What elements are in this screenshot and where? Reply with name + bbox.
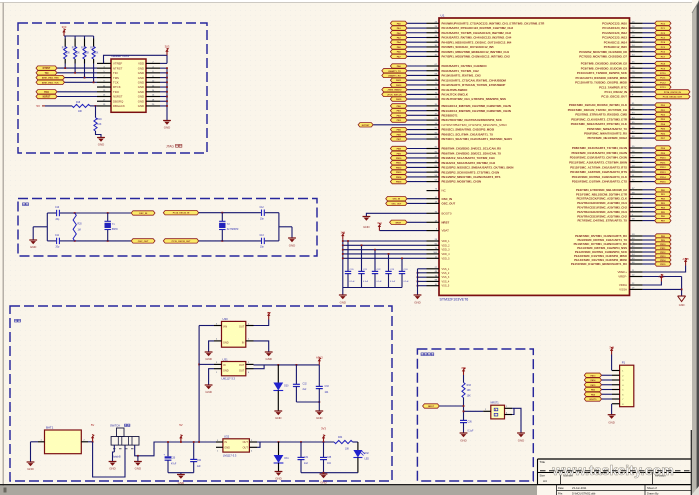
capacitor C33 104 (318, 365, 320, 387)
wire BAT1 minus to ground (31, 441, 39, 443)
svg-text:U31: U31 (223, 357, 229, 361)
svg-text:PA10/USART1_RX/TIM1_CH3: PA10/USART1_RX/TIM1_CH3 (442, 74, 482, 78)
svg-text:TDI: TDI (45, 73, 49, 75)
svg-text:R15: R15 (90, 47, 95, 49)
svg-text:PE6/TRACED3/FSMC_A22/TIM9_CH2: PE6/TRACED3/FSMC_A22/TIM9_CH2 (577, 214, 627, 218)
svg-text:PD15/FSMC_D1/TIM4_CH4/USART3_C: PD15/FSMC_D1/TIM4_CH4/USART3_CTS (572, 180, 627, 184)
svg-text:3V3: 3V3 (377, 222, 382, 225)
wire VTREF-VDD loop (104, 55, 168, 63)
svg-text:PE1/FSMC_NBL1/DCMI_D3/TIM4_ETR: PE1/FSMC_NBL1/DCMI_D3/TIM4_ETR (576, 192, 627, 196)
ground U31 left (205, 384, 213, 387)
U1 VDD pins (427, 240, 440, 242)
oscillator section dashed box (18, 199, 317, 257)
svg-text:GND: GND (135, 467, 141, 471)
svg-text:PB13: PB13 (396, 172, 402, 174)
svg-text:R33: R33 (467, 385, 472, 387)
svg-text:Header 10X2: Header 10X2 (112, 54, 130, 58)
svg-text:10K: 10K (97, 124, 102, 126)
svg-text:JTAG: JTAG (166, 145, 174, 149)
U1 right pins PC0-PC7 with ports (630, 22, 643, 24)
ground U30 left (205, 351, 213, 354)
JTAG section dashed box (18, 23, 207, 153)
svg-text:U1: U1 (441, 13, 445, 17)
svg-text:GND: GND (460, 439, 466, 443)
svg-text:GND: GND (178, 481, 184, 485)
ground BOOT0 (363, 215, 371, 218)
capacitor C32 2u2 (295, 365, 297, 384)
svg-text:3V3: 3V3 (165, 44, 170, 48)
svg-text:D32: D32 (365, 453, 370, 455)
svg-text:1M: 1M (78, 230, 81, 232)
svg-text:PE11/FSMC_D8/TIM1_CH2/SPI4_NSS: PE11/FSMC_D8/TIM1_CH2/SPI4_NSS (577, 246, 627, 250)
svg-text:C32: C32 (303, 384, 308, 386)
U1 right pins PD0-PD7 with ports (630, 104, 643, 106)
diode D31 (277, 442, 279, 455)
U1 left pins PA8-PA15 with ports (427, 65, 440, 67)
svg-text:PB1/ADC12_IN9/TIM3_CH4/TIM8_CH: PB1/ADC12_IN9/TIM3_CH4/TIM8_CH3N/TIM1_CH… (442, 109, 511, 113)
svg-text:IN: IN (242, 341, 245, 344)
svg-text:PD1/FSMC_D3/CAN_TX/OSC_OUT/TIM: PD1/FSMC_D3/CAN_TX/OSC_OUT/TIM4_CH (568, 108, 627, 112)
svg-text:32.768KHZ: 32.768KHZ (227, 229, 239, 231)
power port 5V0 above U30 (268, 315, 270, 320)
wire P1 pin1 to 3V3 (610, 355, 612, 371)
resistor R18 10K horizontal (45, 105, 72, 107)
svg-text:PC4/ADC12_IN14: PC4/ADC12_IN14 (604, 40, 628, 44)
svg-text:JTMS_SWDIO: JTMS_SWDIO (387, 90, 401, 92)
svg-text:PD13: PD13 (660, 172, 666, 174)
svg-text:Drawn By:: Drawn By: (647, 492, 659, 495)
svg-text:VDD_5: VDD_5 (442, 257, 451, 260)
port OSC_IN (131, 211, 155, 215)
svg-text:NSRST: NSRST (43, 97, 51, 99)
wire switch pole1 to ground (113, 445, 115, 452)
svg-text:GND: GND (679, 303, 685, 307)
svg-text:NRST1: NRST1 (491, 402, 500, 405)
wire 32k top rail (199, 212, 261, 214)
wire switch pole2 (135, 442, 216, 456)
port ARM_JTAG_TCK (36, 80, 65, 84)
U1 right pins PE0-PE7 with ports (630, 189, 643, 191)
svg-text:5V: 5V (36, 104, 40, 108)
svg-text:GND: GND (138, 90, 144, 94)
power port 3V3 reset (462, 370, 464, 375)
svg-text:OUT: OUT (239, 326, 245, 329)
ground reset right (517, 432, 525, 435)
svg-text:TDI: TDI (113, 71, 118, 75)
svg-text:PB15/SPI2_MOSI/TIM1_CH3N: PB15/SPI2_MOSI/TIM1_CH3N (442, 180, 482, 184)
svg-text:OSC_IN: OSC_IN (139, 213, 148, 215)
svg-text:GND: GND (275, 477, 281, 481)
capacitor C31 2u2 (300, 442, 302, 457)
wire BAT1 plus (88, 441, 93, 443)
oscillator section label (23, 203, 26, 206)
svg-text:PC2/ADC123_IN12: PC2/ADC123_IN12 (602, 31, 627, 35)
capacitor C10 20p (47, 212, 56, 214)
svg-text:GND: GND (265, 357, 271, 361)
svg-text:VDD_1: VDD_1 (442, 240, 451, 243)
svg-text:LM1117-3.3: LM1117-3.3 (222, 377, 236, 381)
svg-text:R20: R20 (78, 224, 83, 226)
svg-text:GND: GND (340, 301, 346, 305)
svg-text:OUT: OUT (243, 441, 249, 444)
U1 pin OSC_IN with port (427, 198, 440, 200)
svg-text:PE3/TRACED0/FSMC_A19/TIM3_CH1: PE3/TRACED0/FSMC_A19/TIM3_CH1 (577, 201, 627, 205)
power port 3V3 JTAG pullups (63, 31, 65, 36)
svg-text:SWITCH: SWITCH (110, 425, 120, 428)
wire TDI row (57, 72, 97, 74)
svg-text:Sheet of: Sheet of (647, 486, 657, 490)
wire U32 OUT rail 3V3 (257, 441, 334, 443)
svg-text:NSRST: NSRST (113, 95, 123, 99)
reset section label (421, 353, 424, 356)
svg-text:10K: 10K (94, 53, 99, 55)
svg-text:OUT: OUT (239, 370, 245, 373)
resistor R34 10K (334, 440, 353, 443)
wire VDD to 3V3 (160, 62, 167, 64)
port TDI (36, 71, 57, 75)
svg-text:PB10/I2C2_SCL/USART3_TX/TIM2_C: PB10/I2C2_SCL/USART3_TX/TIM2_CH3 (442, 156, 496, 160)
svg-text:PC14_OSC32_IN: PC14_OSC32_IN (605, 90, 627, 94)
svg-text:VDD_4: VDD_4 (442, 253, 451, 256)
svg-text:47uF: 47uF (171, 463, 177, 465)
svg-text:VSS_1: VSS_1 (442, 268, 450, 271)
svg-text:NJTRST/PB4/TIM3_CH1/SPI3_MISO/: NJTRST/PB4/TIM3_CH1/SPI3_MISO/SPI1_MISO (442, 123, 508, 127)
ground VSS (414, 294, 422, 297)
svg-text:VSS_2: VSS_2 (442, 272, 450, 275)
svg-text:OSC_IN: OSC_IN (393, 199, 401, 201)
window left border (2, 3, 4, 495)
power port 3V3 header P1 (610, 350, 612, 355)
svg-text:GND: GND (30, 245, 36, 249)
svg-text:5V: 5V (91, 423, 95, 427)
svg-text:PB6/I2C1_SCL/TIM4_CH1/USART1_T: PB6/I2C1_SCL/TIM4_CH1/USART1_TX (442, 132, 494, 136)
svg-text:GND: GND (205, 390, 211, 394)
svg-text:R18: R18 (76, 102, 81, 104)
svg-text:PE0/TIM4_ETR/FSMC_NBL0/DCMI_D2: PE0/TIM4_ETR/FSMC_NBL0/DCMI_D2 (576, 188, 627, 192)
resistor R33 10K (462, 375, 464, 383)
svg-text:C10: C10 (55, 207, 60, 209)
svg-text:PB5/I2C1_SMBA/TIM3_CH2/SPI3_MO: PB5/I2C1_SMBA/TIM3_CH2/SPI3_MOSI (442, 128, 495, 132)
U1 left pins PB0-PB7 with ports (427, 105, 440, 107)
svg-text:PB15: PB15 (396, 182, 402, 184)
svg-text:VSSA: VSSA (619, 288, 627, 292)
U1 right pins PE8-PE15 with ports (630, 235, 643, 237)
svg-text:PB11/I2C2_SDA/USART3_RX/TIM2_C: PB11/I2C2_SDA/USART3_RX/TIM2_CH4 (442, 161, 496, 165)
diode D30 (277, 365, 279, 383)
svg-text:10K: 10K (467, 390, 472, 392)
svg-text:U32: U32 (224, 434, 230, 438)
svg-text:23-Jun-2011: 23-Jun-2011 (572, 486, 587, 490)
svg-text:D30: D30 (284, 385, 289, 387)
port NTRST (36, 66, 57, 70)
svg-text:0.1uF: 0.1uF (377, 281, 383, 283)
svg-text:NRST: NRST (428, 406, 435, 408)
svg-text:PC10/UART4_TX/SDIO_D2/SPI3_SCK: PC10/UART4_TX/SDIO_D2/SPI3_SCK (577, 71, 628, 75)
ground 5V caps (177, 473, 185, 476)
svg-text:GND: GND (138, 80, 144, 84)
U1 pin NJTRST with long wire to port (427, 124, 440, 126)
ground decoupling bank (342, 288, 344, 296)
wire to reset chip (464, 410, 484, 412)
wire U30 GND left (209, 341, 214, 352)
svg-text:PD12/FSMC_A17/TIM4_CH1/USART3_: PD12/FSMC_A17/TIM4_CH1/USART3_RTS (570, 165, 627, 169)
svg-text:GND: GND (27, 467, 33, 471)
svg-text:PB12: PB12 (396, 167, 402, 169)
power port 5V battery (91, 437, 93, 442)
svg-text:PD14/FSMC_D0/TIM4_CH3/USART3_C: PD14/FSMC_D0/TIM4_CH3/USART3_CLK (572, 175, 628, 179)
svg-text:PE9/FSMC_D6/TIM1_CH1/UART4_TX: PE9/FSMC_D6/TIM1_CH1/UART4_TX (578, 238, 628, 242)
svg-text:PD12: PD12 (660, 167, 666, 169)
svg-text:VDD_2: VDD_2 (442, 244, 451, 247)
resistor R13 10K (74, 36, 76, 39)
svg-text:GND: GND (138, 76, 144, 80)
svg-text:TDO: TDO (113, 90, 120, 94)
svg-text:PA14/JTCK-SWCLK: PA14/JTCK-SWCLK (442, 93, 469, 97)
svg-text:VDDA: VDDA (619, 283, 627, 287)
svg-text:GND: GND (275, 416, 281, 420)
U1 pin OSC_OUT with port (427, 202, 440, 204)
wire VDD bus and verticals (342, 240, 344, 288)
wire battery to switch (93, 442, 125, 477)
svg-text:PC0/ADC123_IN10: PC0/ADC123_IN10 (602, 21, 627, 25)
svg-text:PB11: PB11 (396, 163, 402, 165)
wire U30 VIN (199, 324, 214, 326)
wire C32 bottom to C33 branch (296, 401, 319, 403)
svg-text:VREF+: VREF+ (617, 270, 627, 274)
power port A3V3 VREF (684, 261, 686, 266)
power section label (15, 319, 18, 322)
svg-text:PC11: PC11 (660, 78, 666, 80)
power port 3V3 main rail (322, 437, 324, 442)
svg-text:PD3/FSMC_CLK/USART2_CTS/TIM3_E: PD3/FSMC_CLK/USART2_CTS/TIM3_ETR (571, 117, 627, 121)
ground D31 (275, 470, 283, 473)
svg-text:Size: Size (540, 473, 546, 477)
svg-text:A3V3: A3V3 (658, 276, 665, 279)
svg-text:3V3: 3V3 (609, 346, 614, 350)
U1 pin VREF+ to A3V3 (630, 271, 643, 273)
JP1 pin stubs and pin names (97, 62, 111, 64)
svg-text:PC8/TIM8_CH3/SDIO_D0/DCMI_D2: PC8/TIM8_CH3/SDIO_D0/DCMI_D2 (581, 62, 628, 66)
svg-text:3V3: 3V3 (461, 366, 466, 370)
U1 pin VBAT to 3V3 (427, 229, 440, 231)
svg-text:PE7/FSMC_D4/TIM1_ETR/UART5_TX: PE7/FSMC_D4/TIM1_ETR/UART5_TX (578, 219, 628, 223)
svg-text:PD9/FSMC_D14/USART3_RX/TIM4_CH: PD9/FSMC_D14/USART3_RX/TIM4_CH2N (572, 151, 627, 155)
svg-text:TMS: TMS (113, 76, 119, 80)
svg-text:GND: GND (138, 71, 144, 75)
svg-text:PD7/FSMC_NE1/FSMC_NCE2: PD7/FSMC_NE1/FSMC_NCE2 (587, 136, 627, 140)
svg-text:8MHz: 8MHz (112, 229, 119, 231)
svg-text:PE2/TRACECK/FSMC_A23/TIM3_CLK: PE2/TRACECK/FSMC_A23/TIM3_CLK (577, 197, 628, 201)
capacitor C11 20p (47, 240, 56, 242)
svg-text:PC5/ADC12_IN15: PC5/ADC12_IN15 (604, 45, 628, 49)
wire NTRST row (57, 67, 97, 69)
svg-text:Title: Title (540, 460, 546, 464)
svg-text:BOOT0: BOOT0 (442, 211, 452, 215)
svg-text:PB10: PB10 (396, 158, 402, 160)
wire 32k gnd bus (278, 213, 280, 241)
decoupling capacitors C20-C24 0.1uF (345, 270, 351, 272)
U1 left pins PB8-PB15 with ports (427, 147, 440, 149)
right scrollbar (692, 0, 699, 495)
U1 left pins PA0-PA7 with ports (427, 22, 440, 24)
svg-text:PD10/FSMC_D15/USART3_CK/TIM4_C: PD10/FSMC_D15/USART3_CK/TIM4_CH3N (570, 156, 627, 160)
svg-text:10K: 10K (345, 449, 350, 451)
svg-text:PA5/SPI1_SCK/DAC_OUT2/ADC12_IN: PA5/SPI1_SCK/DAC_OUT2/ADC12_IN5 (442, 45, 495, 49)
ground reset cap (460, 432, 468, 435)
wire 5V vertical feed to regulators (198, 326, 200, 443)
svg-text:P1: P1 (622, 361, 626, 365)
power port 3V3 JTAG right (166, 51, 168, 56)
port TDO (36, 90, 57, 94)
svg-text:10K: 10K (78, 111, 83, 113)
svg-text:PB12/SPI2_NSS/I2C2_SMBA/USART3: PB12/SPI2_NSS/I2C2_SMBA/USART3_CK/TIM1_B… (442, 166, 514, 170)
svg-text:PD6/FSMC_NWAIT/USART2_RX: PD6/FSMC_NWAIT/USART2_RX (584, 132, 627, 136)
svg-text:PE8/FSMC_D5/TIM1_CH1N/UART5_RX: PE8/FSMC_D5/TIM1_CH1N/UART5_RX (575, 234, 627, 238)
svg-text:OUT: OUT (243, 447, 249, 450)
svg-text:NJTRST: NJTRST (362, 125, 371, 127)
svg-text:PC13_TAMPER_RTC: PC13_TAMPER_RTC (599, 85, 627, 89)
power port 3V3 VBAT (378, 226, 380, 231)
svg-text:3V3: 3V3 (341, 232, 346, 235)
ground U30 right (265, 351, 273, 354)
wire pullup top rail (64, 35, 94, 37)
svg-text:PC3/ADC123_IN13: PC3/ADC123_IN13 (602, 36, 627, 40)
title block (538, 458, 692, 460)
svg-text:OSC_IN: OSC_IN (442, 197, 453, 201)
power port 3V3 decoupling bank (342, 235, 344, 240)
svg-text:R12: R12 (62, 47, 67, 49)
capacitor C12 10p (260, 210, 262, 216)
svg-text:PC1/ADC123_IN11: PC1/ADC123_IN11 (602, 26, 627, 30)
svg-text:PA13/JTMS-SWDIO: PA13/JTMS-SWDIO (442, 88, 469, 92)
svg-text:3V3: 3V3 (62, 25, 67, 29)
svg-text:0.1uF: 0.1uF (404, 281, 410, 283)
svg-text:VDD: VDD (138, 62, 144, 66)
svg-text:GND: GND (138, 66, 144, 70)
svg-text:PC12/UART5_TX/SDIO_CK/SPI3_MOS: PC12/UART5_TX/SDIO_CK/SPI3_MOSI (575, 81, 627, 85)
wire TMS row (65, 76, 98, 78)
svg-text:R34: R34 (338, 437, 343, 439)
capacitor C35 104 (322, 442, 324, 457)
svg-text:C33: C33 (325, 386, 330, 388)
svg-text:VIN: VIN (223, 326, 227, 329)
svg-text:3V3: 3V3 (321, 427, 326, 431)
svg-text:VREF-: VREF- (618, 275, 627, 279)
svg-text:GND: GND (414, 301, 420, 305)
svg-text:D:\MCU\STM32.ddb: D:\MCU\STM32.ddb (572, 492, 596, 495)
svg-text:LED: LED (365, 459, 370, 461)
U1 VSS pins (427, 268, 440, 270)
ground switch pole1 (109, 460, 117, 463)
svg-text:PA7/SPI1_MOSI/TIM8_CH1N/ADC12_: PA7/SPI1_MOSI/TIM8_CH1N/ADC12_IN7/TIM3_C… (442, 55, 511, 59)
ground switch pole2 (134, 460, 142, 463)
svg-text:PA2/USART2_TX/TIM5_CH3/ADC123_: PA2/USART2_TX/TIM5_CH3/ADC123_IN2/TIM2_C… (442, 31, 512, 35)
svg-text:PD2/TIM3_ETR/UART5_RX/SDIO_CMD: PD2/TIM3_ETR/UART5_RX/SDIO_CMD (575, 113, 627, 117)
port NSRST (36, 94, 57, 98)
power section dashed box (10, 306, 392, 481)
resistor R12 10K (64, 36, 66, 39)
svg-text:PB7/I2C1_SDA/TIM4_CH2/USART1_R: PB7/I2C1_SDA/TIM4_CH2/USART1_RX/FSMC_NAD… (442, 137, 513, 141)
ground C33 (315, 410, 323, 413)
svg-text:C31: C31 (304, 457, 309, 459)
svg-text:A3V3: A3V3 (316, 355, 323, 359)
svg-text:10K: 10K (66, 53, 71, 55)
port NRST reset (423, 404, 440, 408)
wire TCK row (65, 81, 98, 83)
svg-text:GND: GND (98, 143, 104, 147)
svg-text:PD0/FSMC_D2/CAN_RX/OSC_IN/TIM4: PD0/FSMC_D2/CAN_RX/OSC_IN/TIM4_CLK (569, 103, 628, 107)
bottom scrollbar strip (0, 486, 537, 495)
svg-text:0.1uF: 0.1uF (350, 281, 356, 283)
svg-text:GND: GND (138, 104, 144, 108)
svg-text:Date:: Date: (558, 486, 564, 490)
svg-text:GND: GND (109, 467, 115, 471)
svg-text:GND: GND (138, 85, 144, 89)
svg-text:VBAT: VBAT (442, 229, 450, 233)
svg-text:PA15/JTDI/TIM2_CH1_ETR/SPI1_NS: PA15/JTDI/TIM2_CH1_ETR/SPI1_NSS/SPI3_NSS (442, 97, 507, 101)
svg-text:GND: GND (320, 480, 326, 484)
svg-text:VSS_5: VSS_5 (442, 285, 450, 288)
svg-text:PD11: PD11 (660, 162, 666, 164)
svg-text:JTCK_SWCLK: JTCK_SWCLK (387, 94, 402, 96)
svg-text:C30: C30 (171, 457, 176, 459)
svg-text:PD5/FSMC_NWE/USART2_TX: PD5/FSMC_NWE/USART2_TX (587, 127, 627, 131)
svg-text:GND: GND (224, 447, 230, 450)
svg-text:PC13: PC13 (660, 87, 666, 89)
wire VSS bus to ground (416, 269, 418, 295)
svg-text:OSC_OUT: OSC_OUT (392, 203, 402, 205)
svg-text:STM32F103VET6: STM32F103VET6 (440, 298, 469, 302)
svg-text:PC15_OSC32_OUT: PC15_OSC32_OUT (663, 97, 683, 99)
U1 pin BOOT0 wire to ground (427, 212, 440, 214)
U1 pin NRST with port (427, 221, 440, 223)
svg-text:PE15: PE15 (660, 264, 666, 266)
wire U30 OUT to 5V0 (254, 320, 269, 326)
svg-text:PD11/FSMC_A16/USART3_CTS/TIM4_: PD11/FSMC_A16/USART3_CTS/TIM4_BKIN (569, 161, 627, 165)
svg-text:1uF: 1uF (197, 466, 202, 468)
svg-text:U30: U30 (223, 317, 229, 321)
svg-text:0.1uF: 0.1uF (363, 281, 369, 283)
svg-text:GND: GND (138, 95, 144, 99)
svg-text:OSC_OUT: OSC_OUT (442, 202, 456, 206)
crystal Y1 8MHz (107, 213, 109, 221)
svg-text:0.1uF: 0.1uF (390, 281, 396, 283)
svg-text:PE14/FSMC_D11/TIM1_CH4/SPI4_MO: PE14/FSMC_D11/TIM1_CH4/SPI4_MOSI (574, 258, 627, 262)
svg-text:OSC_OUT: OSC_OUT (138, 241, 149, 243)
svg-text:C35: C35 (327, 457, 332, 459)
svg-text:NRST: NRST (442, 220, 450, 224)
svg-text:VSS_4: VSS_4 (442, 280, 450, 283)
svg-text:PB0/ADC12_IN8/TIM3_CH3/TIM8_CH: PB0/ADC12_IN8/TIM3_CH3/TIM8_CH2N/TIM1_CH… (442, 104, 511, 108)
svg-text:OUT: OUT (239, 364, 245, 367)
wire U31 GND to ground (209, 369, 214, 385)
capacitor C13 10p (260, 238, 262, 244)
svg-text:PA9/USART1_TX/TIM1_CH2: PA9/USART1_TX/TIM1_CH2 (442, 69, 480, 73)
svg-text:PB13/SPI2_SCK/USART3_CTS/TIM1_: PB13/SPI2_SCK/USART3_CTS/TIM1_CH1N (442, 170, 500, 174)
ground analog earth (678, 295, 686, 297)
wire OSC_OUT rail (75, 240, 132, 242)
port ARM_JTAG_TMS (36, 75, 65, 79)
wire decoupling ground rail (343, 286, 402, 288)
svg-text:PD4/FSMC_NOE/USART2_RTS/TIM4_C: PD4/FSMC_NOE/USART2_RTS/TIM4_CLK (571, 122, 628, 126)
svg-text:PA8/USART1_CK/TIM1_CH1/MCO: PA8/USART1_CK/TIM1_CH1/MCO (442, 64, 488, 68)
ground D30 (274, 410, 282, 413)
svg-text:PB9/TIM4_CH4/SDIO_D5/I2C1_SDA/: PB9/TIM4_CH4/SDIO_D5/I2C1_SDA/CAN_TX (442, 151, 502, 155)
svg-text:0.1uF: 0.1uF (468, 431, 474, 433)
ground OSC left (29, 239, 37, 242)
svg-text:TCK: TCK (113, 80, 119, 84)
svg-text:VSS_3: VSS_3 (442, 276, 450, 279)
